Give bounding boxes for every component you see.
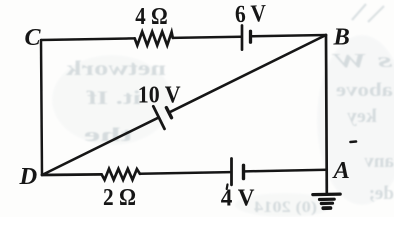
svg-text:B: B [333,23,350,50]
battery 10V short plate [166,108,171,118]
wire: 4V battery to A [245,170,327,172]
speck above A [351,140,357,143]
faint bleed-through text: mirrored 'network' [66,4,394,216]
svg-text:network: network [66,56,166,80]
svg-text:4 V: 4 V [221,184,255,211]
battery 10V long plate [153,106,164,129]
wire: right edge B through A to ground stub [325,35,328,193]
svg-text:A: A [332,157,350,184]
battery 4V long plate [230,159,233,185]
ground bar 1 [313,193,340,197]
battery 6V short plate [249,31,252,42]
svg-text:10 V: 10 V [138,81,181,108]
svg-text:key: key [346,106,377,127]
tick above 4V label [226,185,229,190]
svg-text:2 Ω: 2 Ω [103,184,136,211]
svg-text:C: C [25,25,42,51]
wire: left edge C to D [41,40,42,175]
battery 4V short plate [242,165,245,178]
ground bar 2 [320,198,335,202]
svg-text:6 V: 6 V [234,0,266,28]
svg-text:4 Ω: 4 Ω [135,3,167,30]
ground bar 4 [323,206,330,210]
svg-text:anv: anv [364,151,394,172]
svg-text:(0) 2014: (0) 2014 [254,199,317,216]
wire: 10V battery to B [169,35,326,112]
wire: diagonal D to 10V battery [42,117,159,175]
wire: resistor to 6V battery [173,37,241,38]
faint squiggles top right [352,4,384,22]
paper wash blobs [52,35,394,217]
svg-text:it. If: it. If [86,88,141,109]
wire: resistor to 4V battery [140,172,230,174]
wire: top edge C to resistor [41,38,135,40]
wire: 6V battery to B [252,35,326,36]
resistor R 4ohm zigzag [135,32,173,46]
svg-text:s W: s W [332,50,394,72]
wire: bottom D to resistor [42,173,102,176]
svg-text:de;: de; [369,183,394,204]
circuit ink [41,26,356,209]
svg-text:above: above [336,80,393,101]
resistor R 2ohm zigzag [102,169,140,180]
battery 6V long plate [241,26,244,50]
svg-text:D: D [19,163,38,190]
ground bar 3 [321,202,332,206]
